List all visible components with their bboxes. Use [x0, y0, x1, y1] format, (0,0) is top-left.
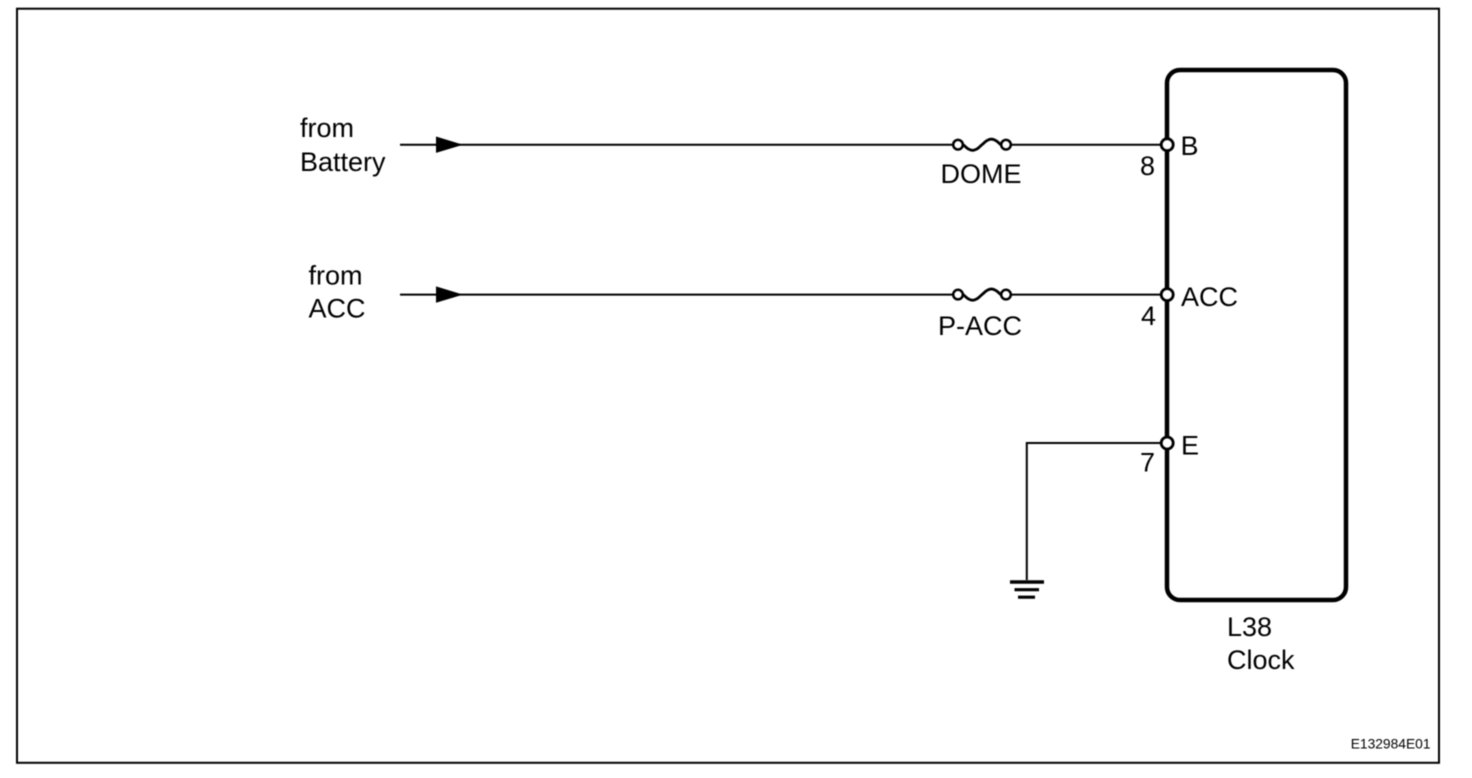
svg-text:ACC: ACC: [309, 294, 366, 324]
label from Battery: [300, 113, 386, 177]
svg-text:P-ACC: P-ACC: [938, 311, 1022, 341]
svg-text:DOME: DOME: [941, 159, 1022, 189]
svg-text:4: 4: [1141, 301, 1156, 331]
label from ACC: [309, 261, 366, 324]
pin 8 B: [1140, 131, 1199, 181]
svg-text:Battery: Battery: [300, 147, 386, 177]
svg-text:from: from: [309, 261, 363, 291]
fuse P-ACC: [938, 289, 1022, 341]
pin 4 ACC: [1141, 282, 1238, 331]
svg-text:E132984E01: E132984E01: [1351, 736, 1431, 751]
svg-text:8: 8: [1140, 151, 1155, 181]
fuse DOME: [941, 139, 1022, 189]
wire fuse P-ACC to pin ACC: [1011, 294, 1162, 296]
figure code E132984E01: [1351, 736, 1431, 751]
clock L38 body: [1167, 70, 1346, 600]
wire from ACC to fuse P-ACC: [400, 286, 953, 302]
wire ground to pin E: [1027, 442, 1162, 580]
svg-text:B: B: [1181, 131, 1199, 161]
svg-text:Clock: Clock: [1227, 645, 1295, 675]
label L38 Clock: [1227, 612, 1295, 675]
svg-text:from: from: [300, 113, 354, 143]
svg-text:7: 7: [1140, 448, 1155, 478]
ground: [1010, 582, 1044, 597]
wire fuse DOME to pin B: [1011, 144, 1162, 146]
svg-text:ACC: ACC: [1181, 282, 1238, 312]
svg-text:L38: L38: [1227, 612, 1272, 642]
pin 7 E: [1140, 431, 1199, 478]
wire from Battery to fuse DOME: [400, 137, 953, 153]
svg-text:E: E: [1181, 431, 1199, 461]
